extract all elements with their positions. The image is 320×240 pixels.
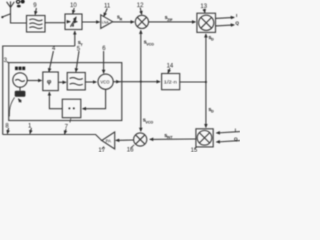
label 12 — [137, 3, 144, 15]
label 4 — [49, 46, 56, 72]
loop filter box — [67, 73, 85, 90]
wire mixer15 to mixer16, label S_INT — [150, 138, 196, 140]
feedback VCO to divider N — [83, 89, 106, 108]
wire mixer12 to mixer13, label S_ZIF — [149, 21, 196, 23]
svg-text:15: 15 — [191, 148, 198, 152]
label 10 — [70, 3, 77, 14]
divider 14 box — [162, 74, 180, 90]
filter 9 — [27, 16, 46, 33]
svg-text:I: I — [235, 127, 236, 132]
wire mixer16 to PA — [116, 139, 134, 141]
mixer 16 — [134, 133, 147, 146]
S_VCO line down to mixer16 — [140, 82, 142, 132]
svg-text:D: D — [211, 110, 214, 114]
label 7 — [65, 124, 69, 134]
label 8 — [5, 123, 9, 133]
svg-text:Q: Q — [234, 136, 238, 141]
oscillator text blobs — [15, 67, 25, 71]
label S_D upper — [208, 35, 214, 42]
mixer 12 — [135, 15, 148, 28]
PA amplifier — [102, 132, 115, 149]
mixer 15 — [196, 129, 213, 147]
svg-text:INT: INT — [167, 136, 174, 140]
svg-text:φ: φ — [47, 79, 52, 86]
label S_VCO upper — [144, 40, 155, 47]
svg-text:R: R — [120, 17, 123, 21]
output I (top right) — [216, 13, 238, 19]
svg-text:D: D — [211, 38, 214, 42]
PLL enclosure box — [9, 63, 122, 121]
wire loop filter to VCO — [85, 81, 96, 83]
reference oscillator — [13, 73, 27, 87]
VCO — [98, 74, 113, 89]
label 11 — [104, 4, 111, 17]
phase detector box — [43, 72, 59, 91]
antenna label blobs — [17, 0, 25, 7]
label S_VCO lower — [143, 118, 154, 125]
block 10 (T/R coupler/switch) — [65, 14, 82, 30]
S_VCO line up to mixer12 — [140, 30, 142, 81]
svg-text:I: I — [236, 13, 237, 18]
wire block10 to LNA — [82, 21, 100, 23]
label 15 — [191, 147, 198, 154]
svg-text:LNA: LNA — [102, 21, 110, 25]
mixer 13 — [197, 13, 216, 32]
label 1 — [28, 123, 32, 133]
VCO output wire — [113, 81, 160, 83]
antenna — [7, 1, 15, 15]
svg-text:ZIF: ZIF — [167, 18, 173, 22]
svg-text:VCO: VCO — [146, 42, 154, 46]
label 5 — [76, 47, 81, 72]
wire divider N to phase det — [49, 92, 62, 109]
wire filter to block10 — [45, 22, 65, 24]
wire divider14 to S_D node — [180, 81, 207, 83]
LNA U11 — [101, 15, 113, 29]
svg-text:Q: Q — [235, 21, 239, 26]
T/R switch lever — [1, 14, 10, 18]
svg-text:1/2·n: 1/2·n — [164, 80, 178, 85]
TX rail wire PA to antenna switch — [3, 135, 102, 141]
S_D line up to mixer13 — [205, 34, 207, 82]
crystal X2 — [9, 87, 25, 116]
label 13 — [200, 4, 207, 12]
wire S_T: block10 bottom to TX rail — [3, 31, 75, 134]
input Q — [216, 136, 240, 142]
wire LNA to mixer12, label S_R — [113, 21, 134, 23]
label 3 — [4, 58, 9, 64]
svg-text:VCO: VCO — [145, 120, 153, 124]
label 17 — [98, 146, 105, 154]
wire osc to phase det — [27, 80, 41, 82]
label S_T — [78, 40, 84, 47]
svg-text:PA: PA — [106, 138, 111, 143]
wire antenna to filter — [11, 15, 27, 23]
label 16 — [127, 145, 134, 154]
output Q — [216, 21, 240, 26]
S_D line down to mixer15 — [205, 82, 207, 127]
svg-text:VCO: VCO — [100, 79, 110, 84]
label 6 — [102, 46, 106, 73]
divider N box — [62, 99, 81, 118]
label S_D lower — [208, 107, 214, 114]
input I (bottom right) — [216, 127, 240, 133]
divider label tick — [69, 118, 72, 122]
label 9 — [33, 3, 37, 14]
label 14 — [167, 63, 174, 73]
wire phase det to loop filter — [58, 81, 66, 83]
